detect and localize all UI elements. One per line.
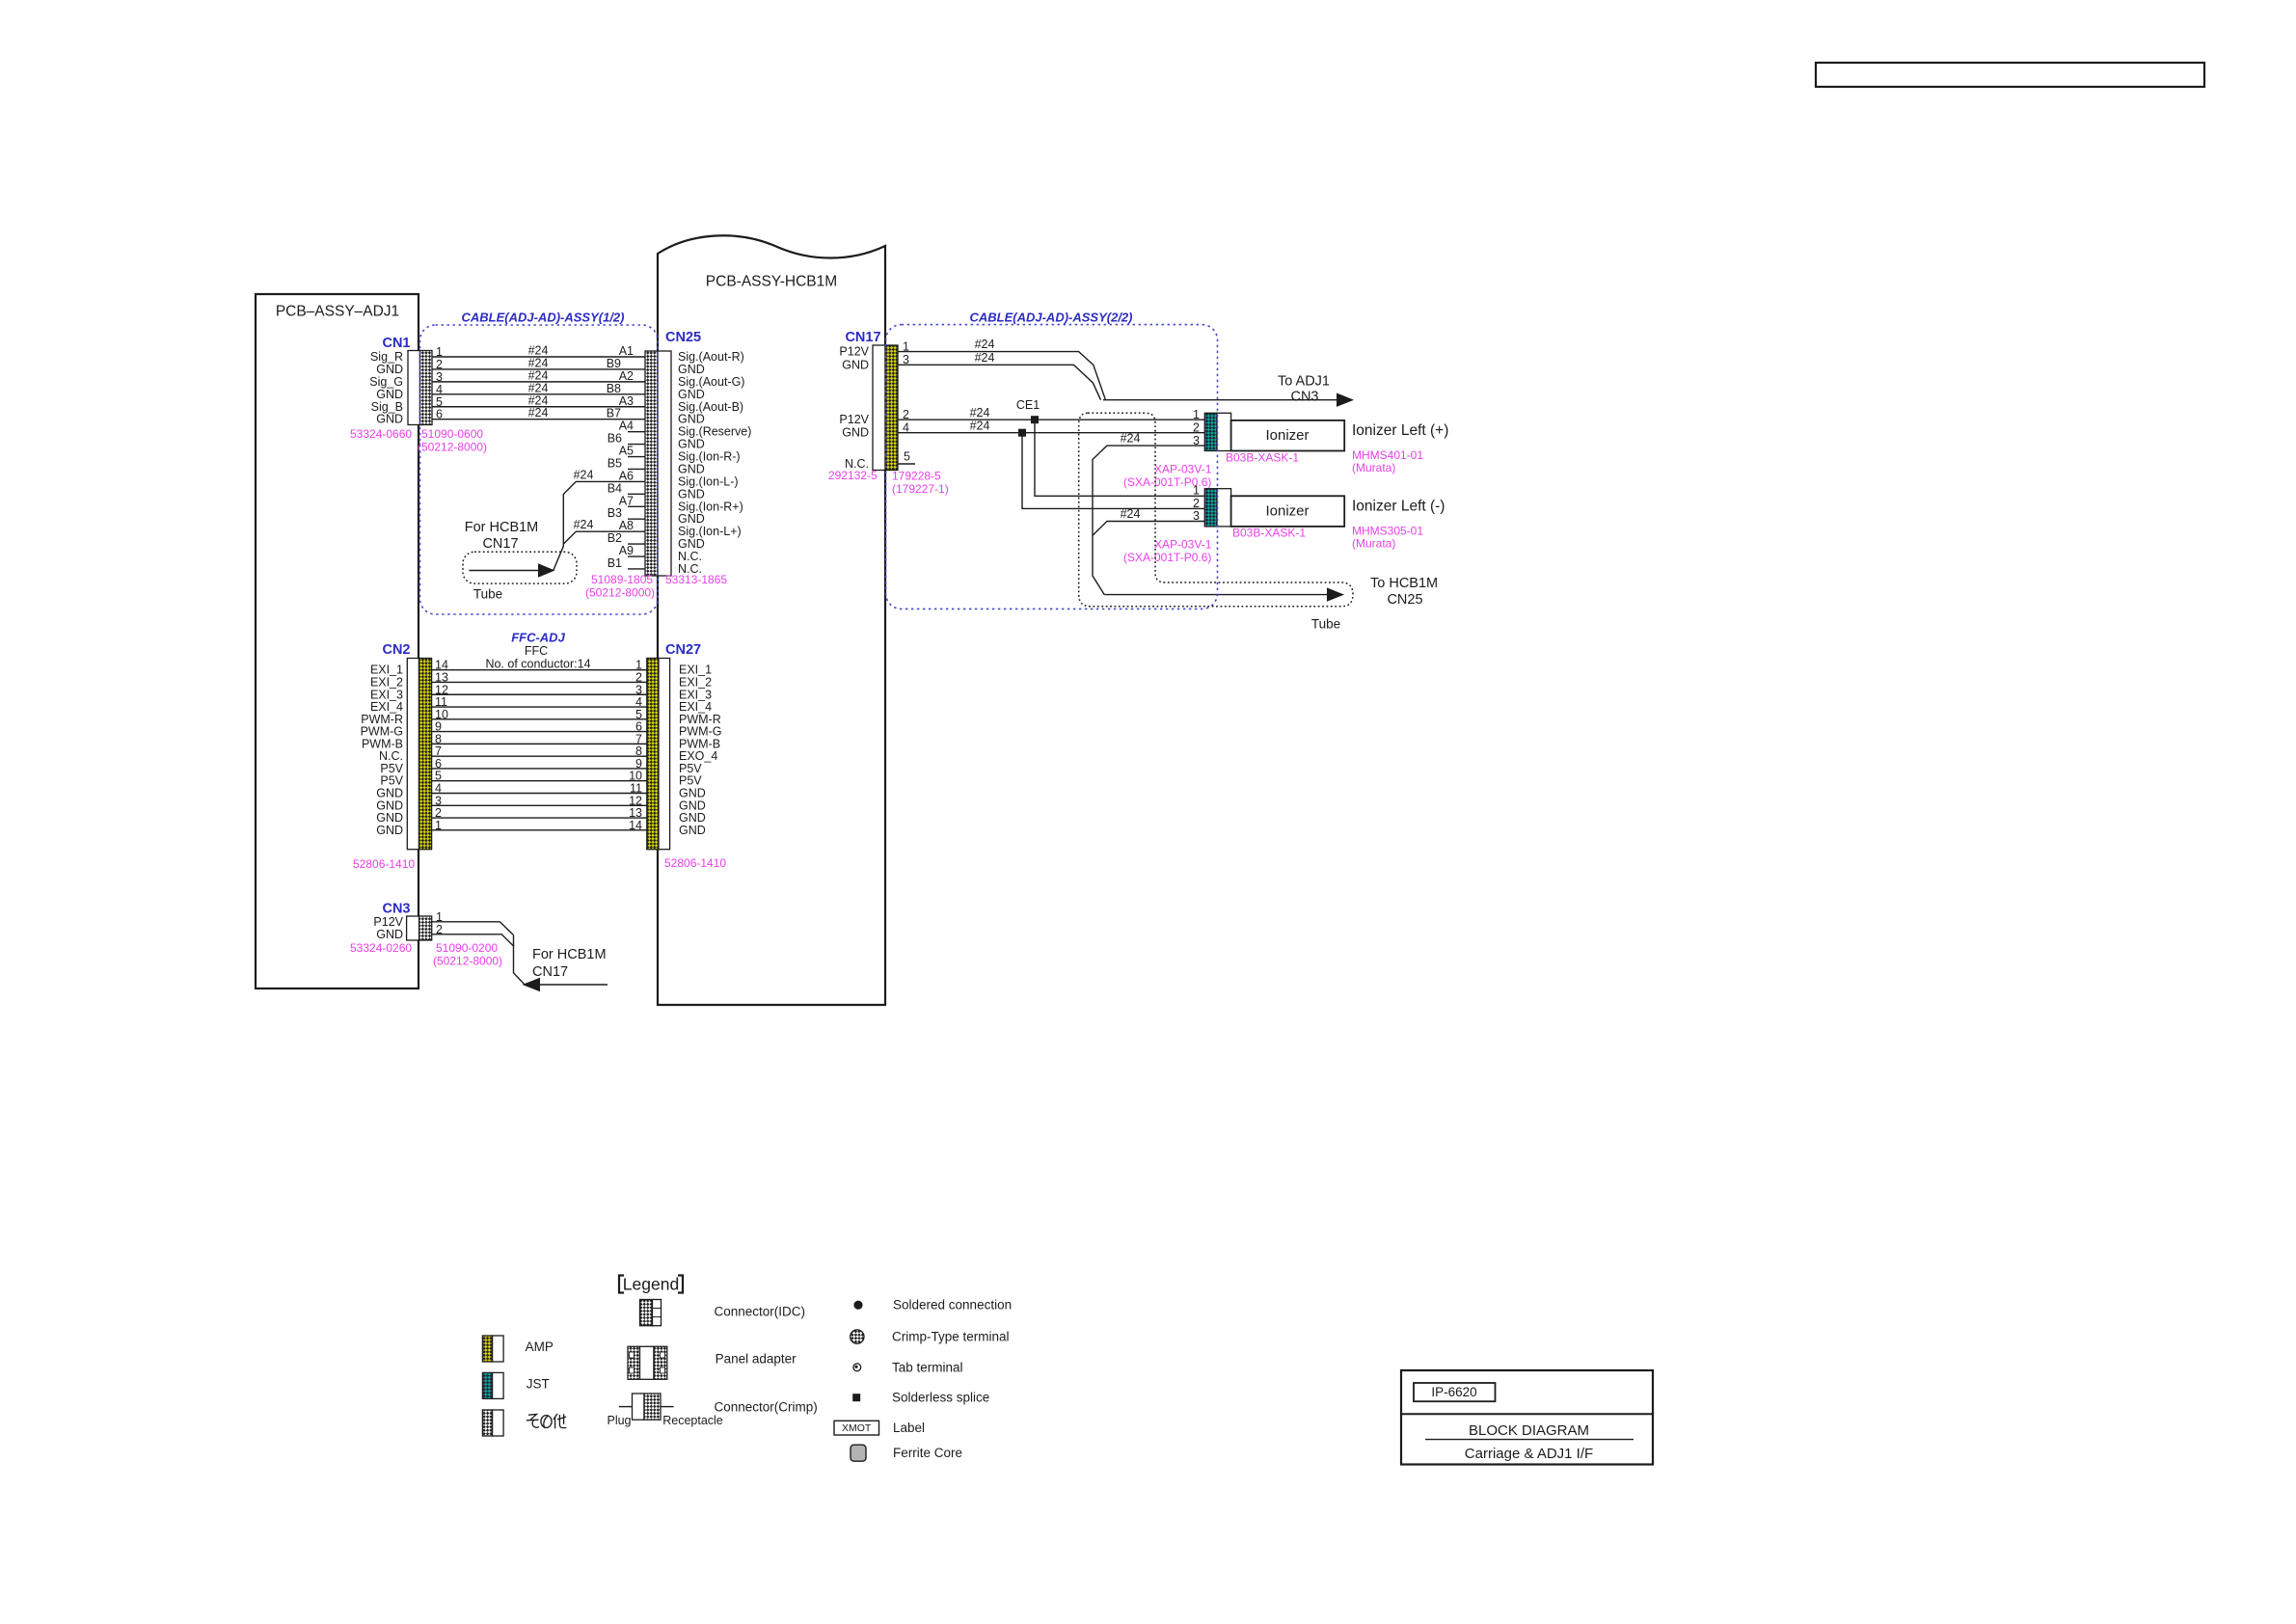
cable part number 51090-0600 (50212-8000)	[418, 427, 487, 454]
svg-text:GND: GND	[678, 438, 705, 451]
svg-text:Tube: Tube	[473, 587, 502, 602]
svg-text:Ionizer Left (+): Ionizer Left (+)	[1352, 422, 1448, 439]
legend Tab terminal	[853, 1360, 963, 1374]
svg-text:GND: GND	[842, 358, 869, 371]
svg-text:To ADJ1: To ADJ1	[1278, 374, 1330, 390]
svg-text:GND: GND	[678, 537, 705, 551]
cable part number 51089-1805 (50212-8000)	[585, 573, 655, 600]
svg-text:B8: B8	[607, 382, 621, 395]
legend other connector symbol (sono-ta)	[482, 1410, 565, 1436]
svg-text:Soldered connection: Soldered connection	[893, 1298, 1012, 1313]
svg-text:#24: #24	[1121, 432, 1141, 446]
CN25 pin stub B3	[608, 506, 645, 520]
svg-text:#24: #24	[970, 406, 990, 420]
svg-text:GND: GND	[678, 413, 705, 426]
CN25 pin stub A5	[619, 445, 645, 458]
title model box IP-6620	[1414, 1383, 1496, 1401]
svg-text:#24: #24	[975, 338, 995, 351]
svg-text:A5: A5	[619, 445, 634, 458]
svg-text:PCB-ASSY-HCB1M: PCB-ASSY-HCB1M	[706, 274, 837, 290]
svg-text:CN3: CN3	[1290, 390, 1318, 405]
svg-text:(Murata): (Murata)	[1352, 461, 1395, 474]
tube (to HCB1M CN17)	[463, 520, 577, 602]
svg-text:Receptacle: Receptacle	[662, 1414, 723, 1427]
svg-text:#24: #24	[528, 393, 549, 407]
connector CN25 (IDC, other)	[645, 330, 701, 576]
svg-text:5: 5	[904, 450, 910, 464]
svg-text:XMOT: XMOT	[842, 1422, 872, 1434]
wire CN1 pin 3 to CN25 A2 (#24)	[432, 368, 645, 383]
svg-text:MHMS305-01: MHMS305-01	[1352, 524, 1423, 537]
title Carriage & ADJ1 I/F	[1465, 1446, 1593, 1462]
CN25 pin stub A8	[619, 519, 634, 532]
svg-text:Panel adapter: Panel adapter	[716, 1352, 797, 1367]
wire CN3 pin 1	[432, 922, 514, 935]
wire CN17 pin 1 (#24)	[898, 338, 1106, 400]
CN25 pin stub A6	[619, 469, 634, 482]
CN17 pin 5 stub	[898, 463, 915, 465]
connector CN27 (AMP)	[647, 642, 701, 850]
svg-text:14: 14	[629, 819, 642, 832]
svg-text:A8: A8	[619, 519, 634, 532]
part number XAP-03V-1 (SXA-001T-P0.6) (ionizer2)	[1123, 538, 1212, 565]
svg-text:#24: #24	[528, 368, 549, 382]
svg-text:B03B-XASK-1: B03B-XASK-1	[1226, 451, 1299, 465]
part numbers MHMS305-01 (Murata)	[1352, 524, 1423, 550]
CN25 pin stub B2	[608, 531, 645, 545]
wire FFC conductor 14 (CN2 pin 14 to CN27 pin 1)	[432, 669, 647, 671]
svg-text:CN17: CN17	[482, 536, 518, 552]
arrow to HCB1M CN25	[1104, 576, 1438, 632]
svg-text:Ionizer Left (-): Ionizer Left (-)	[1352, 499, 1445, 515]
wire FFC conductor 7 (CN2 pin 7 to CN27 pin 8)	[432, 755, 647, 757]
svg-text:Label: Label	[893, 1421, 925, 1435]
CN2 pin numbers 14..1	[435, 659, 448, 832]
legend Soldered connection	[853, 1298, 1012, 1313]
CN1 pin name labels	[369, 350, 403, 426]
label Ionizer Left (+)	[1352, 422, 1448, 439]
svg-text:CN25: CN25	[665, 330, 701, 345]
svg-text:Sig.(Aout-B): Sig.(Aout-B)	[678, 400, 743, 414]
svg-text:Sig_R: Sig_R	[370, 350, 403, 364]
wire splice down to ionizer2 pin 2	[1022, 433, 1204, 509]
wire FFC conductor 6 (CN2 pin 6 to CN27 pin 9)	[432, 768, 647, 770]
svg-text:N.C.: N.C.	[678, 550, 702, 563]
wire FFC conductor 10 (CN2 pin 10 to CN27 pin 5)	[432, 718, 647, 720]
svg-text:PCB–ASSY–ADJ1: PCB–ASSY–ADJ1	[276, 304, 399, 320]
svg-text:B4: B4	[608, 481, 622, 495]
svg-text:P12V: P12V	[373, 915, 403, 929]
wire CN17 pin 3 (#24)	[898, 351, 1101, 400]
svg-text:#24: #24	[574, 468, 594, 481]
CN3 part number 53324-0260	[350, 941, 412, 955]
svg-text:AMP: AMP	[526, 1340, 554, 1354]
CN27 part number 52806-1410	[664, 856, 726, 870]
wire ionizer2 pin 3 (#24) into tube	[1093, 507, 1204, 535]
connector CN3 (crimp, other)	[382, 902, 431, 941]
svg-text:GND: GND	[678, 512, 705, 526]
wire FFC conductor 11 (CN2 pin 11 to CN27 pin 4)	[432, 706, 647, 708]
svg-text:GND: GND	[376, 388, 403, 401]
svg-text:BLOCK DIAGRAM: BLOCK DIAGRAM	[1469, 1422, 1589, 1439]
CN17 board part number 292132-5	[828, 469, 878, 482]
wire CN1 pin 5 to CN25 A3 (#24)	[432, 393, 645, 408]
svg-text:For HCB1M: For HCB1M	[465, 520, 539, 535]
svg-text:P12V: P12V	[839, 345, 869, 359]
svg-text:CN17: CN17	[532, 964, 568, 980]
svg-text:Sig.(Aout-G): Sig.(Aout-G)	[678, 375, 744, 389]
svg-text:292132-5: 292132-5	[828, 469, 878, 482]
ionizer1 box	[1231, 420, 1345, 451]
svg-text:B3: B3	[608, 506, 622, 520]
svg-text:Legend: Legend	[623, 1275, 679, 1294]
connector CN2 (AMP)	[382, 642, 431, 850]
svg-text:Ionizer: Ionizer	[1265, 427, 1309, 444]
svg-text:1: 1	[1193, 408, 1200, 421]
CN25 part number 53313-1865	[665, 573, 727, 586]
svg-text:(50212-8000): (50212-8000)	[585, 586, 655, 600]
svg-text:(SXA-001T-P0.6): (SXA-001T-P0.6)	[1123, 551, 1211, 564]
ionizer2 box	[1231, 496, 1345, 527]
ionizer2 pin numbers	[1193, 484, 1200, 524]
legend Crimp-Type terminal	[851, 1330, 1010, 1344]
part number B03B-XASK-1 (ionizer2)	[1232, 527, 1306, 540]
svg-text:FFC: FFC	[525, 644, 548, 658]
svg-text:IP-6620: IP-6620	[1431, 1385, 1476, 1399]
wire FFC conductor 12 (CN2 pin 12 to CN27 pin 3)	[432, 693, 647, 695]
wire CN17 pin 2 (#24) to ionizer connectors	[898, 406, 1204, 420]
part number B03B-XASK-1 (ionizer1)	[1226, 451, 1299, 465]
legend Ferrite Core	[851, 1445, 962, 1461]
svg-text:53324-0660: 53324-0660	[350, 427, 412, 441]
wire FFC conductor 13 (CN2 pin 13 to CN27 pin 2)	[432, 681, 647, 683]
wire FFC conductor 3 (CN2 pin 3 to CN27 pin 12)	[432, 804, 647, 806]
ionizer1 pin numbers	[1193, 408, 1200, 447]
CN3 pin name labels	[373, 915, 403, 941]
svg-text:#24: #24	[574, 518, 594, 531]
connector CN1 (crimp, other)	[382, 336, 432, 425]
part numbers MHMS401-01 (Murata)	[1352, 448, 1423, 474]
svg-text:Sig.(Ion-R-): Sig.(Ion-R-)	[678, 450, 741, 464]
svg-text:Sig.(Ion-L-): Sig.(Ion-L-)	[678, 474, 739, 488]
svg-text:(Murata): (Murata)	[1352, 537, 1395, 551]
svg-text:Carriage & ADJ1 I/F: Carriage & ADJ1 I/F	[1465, 1446, 1593, 1462]
legend Solderless splice	[852, 1391, 989, 1405]
svg-text:Tube: Tube	[1311, 617, 1340, 632]
svg-text:GND: GND	[376, 928, 403, 941]
svg-text:GND: GND	[678, 363, 705, 376]
svg-text:52806-1410: 52806-1410	[664, 856, 726, 870]
svg-text:Crimp-Type terminal: Crimp-Type terminal	[892, 1330, 1010, 1344]
svg-text:A7: A7	[619, 494, 634, 507]
svg-text:GND: GND	[679, 824, 706, 837]
wire CN25 A8 (#24) to tube	[563, 518, 645, 544]
CN1 pin numbers	[436, 345, 443, 421]
svg-text:Sig.(Reserve): Sig.(Reserve)	[678, 425, 751, 439]
svg-text:A2: A2	[619, 369, 634, 383]
wire CN17 pin 4 (#24) to ionizer connectors	[898, 419, 1204, 432]
connector ionizer2 (JST XAP-03V-1)	[1204, 489, 1230, 527]
svg-text:JST: JST	[527, 1377, 550, 1392]
title BLOCK DIAGRAM	[1425, 1422, 1634, 1440]
svg-text:1: 1	[1193, 484, 1200, 498]
svg-text:MHMS401-01: MHMS401-01	[1352, 448, 1423, 462]
CN2 pin name labels	[361, 663, 404, 837]
cable CABLE(ADJ-AD)-ASSY(1/2) boundary	[420, 311, 659, 615]
legend Connector(Crimp) symbol	[607, 1394, 817, 1427]
svg-text:A1: A1	[619, 344, 634, 358]
svg-text:GND: GND	[376, 363, 403, 376]
svg-text:179228-5: 179228-5	[892, 470, 941, 483]
wire FFC conductor 2 (CN2 pin 2 to CN27 pin 13)	[432, 817, 647, 819]
solderless splice on pin4 wire	[1018, 429, 1026, 437]
label Ionizer Left (-)	[1352, 499, 1445, 515]
svg-text:B5: B5	[608, 456, 622, 470]
part number XAP-03V-1 (SXA-001T-P0.6) (ionizer1)	[1123, 463, 1212, 490]
cable part number 179228-5 (179227-1)	[892, 470, 949, 497]
svg-text:#24: #24	[528, 406, 549, 420]
svg-text:Tab terminal: Tab terminal	[892, 1360, 963, 1374]
connector ionizer1 (JST XAP-03V-1)	[1204, 413, 1230, 450]
svg-text:No. of conductor:14: No. of conductor:14	[485, 658, 590, 671]
svg-text:A9: A9	[619, 544, 634, 557]
wire CN1 pin 2 to CN25 B9 (#24)	[432, 356, 645, 370]
svg-text:CABLE(ADJ-AD)-ASSY(2/2): CABLE(ADJ-AD)-ASSY(2/2)	[969, 311, 1132, 325]
svg-text:CE1: CE1	[1016, 398, 1040, 412]
svg-text:A3: A3	[619, 394, 634, 408]
CN27 signal names	[679, 663, 721, 837]
board PCB-ASSY-HCB1M (torn top)	[658, 235, 885, 1005]
svg-text:A6: A6	[619, 469, 634, 482]
legend Connector(IDC) symbol	[640, 1300, 806, 1326]
svg-text:#24: #24	[975, 351, 995, 365]
svg-text:A4: A4	[619, 420, 634, 433]
CN27 pin numbers 1..14	[629, 659, 642, 832]
wire CN1 pin 1 to CN25 A1 (#24)	[432, 344, 645, 359]
svg-text:B2: B2	[608, 531, 622, 545]
CN25 pin stub B6	[608, 432, 645, 446]
svg-text:CN25: CN25	[1387, 592, 1422, 608]
svg-text:GND: GND	[678, 388, 705, 401]
svg-text:B9: B9	[607, 357, 621, 370]
CN17 pin name labels	[839, 345, 869, 471]
wire bundle CN3 down to HCB1M CN17 arrow	[514, 934, 608, 991]
svg-text:XAP-03V-1: XAP-03V-1	[1154, 463, 1212, 476]
svg-text:B6: B6	[608, 432, 622, 446]
CN25 pin stub A9	[619, 544, 645, 557]
svg-text:51089-1805: 51089-1805	[591, 573, 653, 586]
CN25 pin stub B5	[608, 456, 645, 470]
cable FFC-ADJ labels	[485, 631, 590, 671]
wire FFC conductor 8 (CN2 pin 8 to CN27 pin 7)	[432, 743, 647, 744]
legend AMP connector symbol	[482, 1336, 553, 1362]
svg-text:For HCB1M: For HCB1M	[532, 947, 607, 962]
svg-text:CN1: CN1	[382, 336, 410, 351]
CN3 pin numbers	[436, 910, 443, 936]
svg-text:Connector(Crimp): Connector(Crimp)	[715, 1400, 818, 1415]
svg-text:GND: GND	[376, 824, 403, 837]
cable part number 51090-0200 (50212-8000)	[433, 941, 502, 968]
wire FFC conductor 5 (CN2 pin 5 to CN27 pin 10)	[432, 780, 647, 782]
legend JST connector symbol	[482, 1372, 549, 1398]
svg-text:Sig.(Aout-R): Sig.(Aout-R)	[678, 350, 744, 364]
CN25 pin stub A4	[619, 420, 645, 433]
wire FFC conductor 1 (CN2 pin 1 to CN27 pin 14)	[432, 829, 647, 831]
legend Label symbol (XMOT)	[834, 1421, 925, 1435]
wire ionizer1 pin 3 (#24) into tube	[1093, 432, 1204, 595]
CN2 part number 52806-1410	[353, 857, 415, 871]
CN25 pin stub B4	[608, 481, 645, 495]
svg-text:#24: #24	[528, 344, 549, 358]
wire splice CE1 down to ionizer2 pin 1	[1035, 420, 1204, 496]
svg-text:GND: GND	[678, 487, 705, 501]
svg-text:Sig.(Ion-R+): Sig.(Ion-R+)	[678, 500, 743, 513]
svg-text:51090-0200: 51090-0200	[436, 941, 498, 955]
CN25 pin stub B1	[608, 556, 645, 570]
wire CN3 pin 2	[432, 934, 514, 947]
svg-text:FFC-ADJ: FFC-ADJ	[511, 631, 565, 645]
svg-text:#24: #24	[1121, 507, 1141, 521]
CN25 signal names	[678, 350, 751, 576]
cable CABLE(ADJ-AD)-ASSY(2/2) boundary	[886, 311, 1218, 609]
svg-text:B1: B1	[608, 556, 622, 570]
CN17 pin numbers	[903, 340, 910, 464]
wire FFC conductor 4 (CN2 pin 4 to CN27 pin 11)	[432, 793, 647, 795]
svg-text:2: 2	[1193, 497, 1200, 510]
svg-text:Connector(IDC): Connector(IDC)	[715, 1305, 806, 1319]
wire CN1 pin 4 to CN25 B8 (#24)	[432, 381, 645, 395]
svg-text:B03B-XASK-1: B03B-XASK-1	[1232, 527, 1306, 540]
svg-text:Sig.(Ion-L+): Sig.(Ion-L+)	[678, 525, 742, 538]
svg-text:CN27: CN27	[665, 642, 701, 658]
svg-text:GND: GND	[678, 462, 705, 475]
svg-text:CABLE(ADJ-AD)-ASSY(1/2): CABLE(ADJ-AD)-ASSY(1/2)	[461, 311, 624, 325]
revision box (empty)	[1816, 63, 2204, 87]
wire CN25 A6 (#24) to tube	[554, 468, 645, 570]
board PCB-ASSY-ADJ1	[256, 294, 419, 988]
svg-text:Solderless splice: Solderless splice	[892, 1391, 989, 1405]
arrow to ADJ1 CN3	[1103, 374, 1354, 407]
svg-text:(50212-8000): (50212-8000)	[433, 955, 502, 968]
svg-text:Sig_B: Sig_B	[371, 400, 403, 414]
svg-text:GND: GND	[842, 426, 869, 440]
legend title	[619, 1275, 683, 1294]
legend Panel adapter symbol	[628, 1346, 797, 1379]
svg-text:2: 2	[1193, 421, 1200, 435]
tube (ionizer wires to HCB1M CN25)	[1079, 413, 1353, 607]
svg-text:P12V: P12V	[839, 413, 869, 426]
svg-text:#24: #24	[970, 419, 990, 432]
svg-text:(179227-1): (179227-1)	[892, 482, 949, 496]
svg-text:To HCB1M: To HCB1M	[1370, 576, 1438, 591]
CN1 part number 53324-0660	[350, 427, 412, 441]
svg-text:53313-1865: 53313-1865	[665, 573, 727, 586]
svg-text:#24: #24	[528, 381, 549, 394]
svg-text:GND: GND	[376, 413, 403, 426]
title block	[1401, 1370, 1653, 1465]
svg-text:CN17: CN17	[845, 330, 880, 345]
svg-text:Plug: Plug	[607, 1414, 631, 1427]
svg-text:53324-0260: 53324-0260	[350, 941, 412, 955]
svg-text:(50212-8000): (50212-8000)	[418, 441, 487, 454]
svg-text:52806-1410: 52806-1410	[353, 857, 415, 871]
svg-text:Sig_G: Sig_G	[369, 375, 403, 389]
CN25 pin stub A7	[619, 494, 645, 507]
wire FFC conductor 9 (CN2 pin 9 to CN27 pin 6)	[432, 731, 647, 733]
svg-text:Ferrite Core: Ferrite Core	[893, 1446, 962, 1460]
svg-text:51090-0600: 51090-0600	[421, 427, 483, 441]
svg-text:#24: #24	[528, 356, 549, 369]
svg-text:CN2: CN2	[382, 642, 410, 658]
wire CN1 pin 6 to CN25 B7 (#24)	[432, 406, 645, 420]
soldered splice CE1	[1016, 398, 1040, 423]
svg-text:XAP-03V-1: XAP-03V-1	[1154, 538, 1212, 552]
svg-text:Ionizer: Ionizer	[1265, 503, 1309, 520]
svg-text:B7: B7	[607, 407, 621, 420]
connector CN17 (AMP)	[845, 330, 898, 471]
